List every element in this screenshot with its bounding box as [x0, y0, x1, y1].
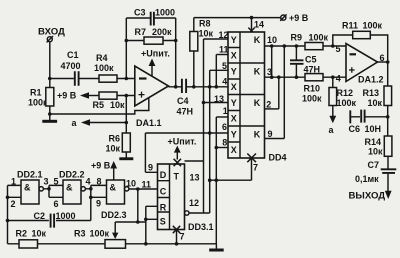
svg-text:10: 10	[126, 179, 136, 189]
node: C2 left junction	[6, 219, 10, 223]
op-amp DA1.2	[336, 44, 388, 85]
wire: vertical pin11 to signal node	[215, 55, 217, 87]
wire: DD2.2 out to DD2.3 in	[85, 185, 106, 220]
node: DD3.1 pin7 bottom	[175, 242, 179, 246]
svg-text:8: 8	[222, 138, 227, 148]
gate DD2.2	[54, 170, 91, 210]
svg-text:100к: 100к	[302, 94, 322, 104]
pin 14 stub with x mark	[248, 18, 264, 34]
wire: wiper riser	[115, 189, 146, 222]
node: gate1-2 junction	[47, 187, 51, 191]
svg-text:C: C	[160, 187, 167, 197]
pin 7 DD3.1 with x mark	[173, 226, 185, 244]
+9V arrow DD2.3	[91, 161, 117, 181]
node: R7 right	[174, 39, 178, 43]
node: pin5	[331, 44, 335, 48]
svg-text:200к: 200к	[152, 27, 172, 37]
resistor R3	[74, 229, 126, 249]
svg-text:T: T	[174, 172, 180, 182]
svg-text:R10: R10	[304, 84, 321, 94]
capacitor C5	[290, 46, 320, 77]
node: wiper riser top	[136, 187, 140, 191]
svg-text:R13: R13	[363, 88, 380, 98]
svg-text:4700: 4700	[61, 61, 81, 71]
resistor R8	[190, 18, 214, 87]
svg-text:9: 9	[148, 163, 153, 173]
svg-text:100к: 100к	[337, 98, 357, 108]
resistor R4	[94, 53, 117, 82]
resistor R6	[106, 133, 131, 154]
svg-text:ВХОД: ВХОД	[38, 27, 65, 38]
svg-text:D: D	[160, 170, 167, 180]
ground under R1	[42, 114, 57, 123]
node: K10 branch	[283, 44, 287, 48]
svg-text:DA1.1: DA1.1	[136, 118, 162, 128]
node: K3 branch right	[277, 75, 281, 79]
wire: X pin 1	[216, 116, 228, 118]
wire: input node	[50, 78, 99, 80]
svg-text:&: &	[110, 183, 117, 193]
resistor R10	[302, 74, 323, 104]
wire: Y pin 12	[204, 38, 229, 40]
terminal +9V	[280, 13, 309, 23]
svg-text:11: 11	[142, 180, 152, 190]
svg-text:ВЫХОД: ВЫХОД	[349, 191, 386, 202]
svg-text:+9 В: +9 В	[91, 161, 111, 171]
wire: input stem	[49, 42, 51, 79]
+Upit arrow DD3.1	[168, 137, 197, 160]
svg-text:C5: C5	[305, 55, 317, 65]
svg-text:8: 8	[97, 177, 102, 187]
svg-text:C1: C1	[67, 50, 79, 60]
svg-text:+9 В: +9 В	[57, 91, 77, 101]
wire: DD2.1 inputs	[8, 185, 22, 197]
svg-text:10к: 10к	[106, 144, 121, 154]
+9V arrow to R5	[57, 91, 99, 101]
svg-text:K: K	[254, 67, 261, 77]
ground main	[209, 244, 224, 252]
wire: feedback right riser	[175, 18, 177, 87]
node: S junction	[144, 218, 148, 222]
wire: K10-K3 vertical	[271, 46, 273, 77]
IC DD3.1 body	[158, 164, 214, 232]
svg-text:11: 11	[219, 45, 229, 55]
resistor R5	[93, 92, 126, 110]
svg-text:R11: R11	[342, 21, 358, 31]
svg-text:1000: 1000	[155, 8, 175, 18]
node: gate2-3 junction top	[89, 187, 93, 191]
svg-text:10к: 10к	[368, 98, 383, 108]
svg-text:10к: 10к	[110, 100, 125, 110]
wire: DA1.1 output node	[169, 86, 229, 88]
wire: R9 to pin5 node	[323, 45, 346, 47]
svg-text:6: 6	[54, 199, 59, 209]
svg-text:100к: 100к	[28, 98, 48, 108]
wire: plus input riser down to a-line and R6	[125, 96, 127, 134]
node: C5 top	[295, 44, 299, 48]
wire: vertical pin12 to pin13 to Q13	[203, 39, 205, 213]
svg-text:R: R	[160, 203, 167, 213]
svg-text:C6: C6	[349, 124, 361, 134]
node: Y6 junction	[208, 131, 212, 135]
capacitor C4	[177, 79, 194, 117]
wire: X pin 11	[216, 54, 228, 56]
node: pin2 junction	[6, 196, 10, 200]
node: Y13 junction	[202, 101, 206, 105]
wire: DD2.3 out to DD3.1 C input	[129, 188, 158, 190]
svg-text:K: K	[254, 98, 261, 108]
resistor R14	[365, 136, 392, 169]
potentiometer R3 wiper arrow	[112, 222, 118, 239]
gate DD2.1	[11, 170, 49, 210]
svg-text:DD3.1: DD3.1	[188, 222, 214, 232]
gate DD2.3	[96, 177, 136, 221]
node: input/R1 junction	[48, 77, 52, 81]
svg-text:12: 12	[189, 198, 199, 208]
svg-text:K: K	[254, 35, 261, 45]
svg-text:7: 7	[253, 163, 258, 173]
node: non-inverting input junction	[125, 94, 129, 98]
resistor R1	[28, 79, 54, 115]
svg-text:&: &	[24, 183, 31, 193]
svg-text:&: &	[66, 183, 73, 193]
node: K3 branch	[270, 75, 274, 79]
node: pin7 crossing	[215, 178, 219, 182]
svg-text:2: 2	[11, 199, 16, 209]
IC DD4 body	[228, 32, 287, 163]
svg-text:R1: R1	[30, 88, 42, 98]
resistor R12	[329, 77, 357, 116]
svg-text:C2: C2	[34, 211, 46, 221]
node a junction	[125, 121, 129, 125]
svg-text:X: X	[231, 114, 237, 124]
svg-text:S: S	[160, 217, 166, 227]
wire: feedback left riser	[125, 18, 127, 79]
svg-text:Y: Y	[231, 98, 237, 108]
wire: Y pin 6 to DD3.1 D riser	[145, 132, 228, 134]
svg-text:4: 4	[222, 77, 227, 87]
svg-text:10H: 10H	[365, 124, 382, 134]
svg-text:0,1мк: 0,1мк	[355, 174, 379, 184]
wire: Y pin 13	[204, 102, 229, 104]
svg-text:6: 6	[222, 122, 227, 132]
svg-text:5: 5	[54, 177, 59, 187]
svg-text:3: 3	[44, 177, 49, 187]
svg-text:DD2.3: DD2.3	[101, 210, 127, 220]
svg-text:10к: 10к	[199, 29, 214, 39]
node: wiper junction	[136, 220, 140, 224]
svg-text:R8: R8	[199, 19, 211, 29]
wire: K10-K9 vertical	[283, 46, 285, 139]
+Upit arrow DA1.1	[141, 49, 170, 77]
wire: K3 to R10	[265, 76, 306, 78]
svg-text:C7: C7	[368, 160, 380, 170]
node a arrow left	[72, 118, 127, 128]
wire: K3-K2 vertical	[278, 77, 280, 109]
svg-text:Y: Y	[231, 35, 237, 45]
node: pin4	[331, 75, 335, 79]
node: output pin6	[386, 60, 390, 64]
wire: D input from Y6 wire	[145, 133, 157, 172]
svg-text:X: X	[231, 82, 237, 92]
wire: +9V rail	[194, 17, 281, 19]
node: C6 right junction	[386, 115, 390, 119]
node: X11-X4 junction	[215, 85, 219, 89]
capacitor C2	[8, 211, 91, 228]
svg-text:4: 4	[336, 74, 341, 84]
node: pin14 junction	[250, 16, 254, 20]
svg-text:100к: 100к	[363, 21, 383, 31]
svg-text:4: 4	[86, 177, 91, 187]
svg-text:R7: R7	[135, 27, 147, 37]
svg-text:47H: 47H	[177, 107, 194, 117]
node: RS riser bottom	[144, 242, 148, 246]
svg-text:Y: Y	[231, 130, 237, 140]
svg-text:100к: 100к	[90, 229, 110, 239]
node: pin7 wire junction	[208, 178, 212, 182]
svg-text:13: 13	[190, 173, 200, 183]
svg-text:1: 1	[223, 106, 228, 116]
node: C5 bottom	[295, 75, 299, 79]
svg-text:R6: R6	[109, 134, 121, 144]
wire: DD2.1 out to DD2.2 in	[43, 185, 63, 197]
wire: R5 to non-inverting input	[117, 95, 135, 97]
output arrow VYHOD	[349, 191, 392, 202]
svg-text:R2: R2	[16, 229, 28, 239]
svg-text:5: 5	[222, 61, 227, 71]
wire: vertical pin5 down to pin12 of DD3.1	[209, 70, 211, 213]
svg-text:Y: Y	[231, 67, 237, 77]
svg-text:R12: R12	[337, 88, 354, 98]
svg-text:DD2.1: DD2.1	[17, 170, 43, 180]
wire: K10 to R9	[265, 45, 306, 47]
svg-text:C3: C3	[134, 8, 146, 18]
svg-text:10к: 10к	[32, 229, 47, 239]
node: signal junction	[208, 85, 212, 89]
resistor R7	[126, 27, 175, 44]
capacitor C7	[355, 160, 396, 191]
wire: left riser input node	[7, 185, 9, 243]
svg-text:6: 6	[380, 53, 385, 63]
node: K10 branch left	[270, 44, 274, 48]
wire: Y pin 5	[210, 69, 228, 71]
wire: ground vertical X1-X8	[215, 117, 217, 244]
svg-text:DA1.2: DA1.2	[358, 75, 384, 85]
resistor R9	[291, 33, 329, 50]
node: R8 bottom	[192, 85, 196, 89]
resistor R11 feedback	[333, 21, 388, 63]
ground under R6	[119, 152, 133, 160]
svg-text:100к: 100к	[309, 33, 329, 43]
arrow a down from R12	[329, 116, 337, 135]
wire: K9 pin	[265, 138, 285, 140]
pin 7 DD4 with x mark	[210, 154, 258, 181]
inverted output pin 12	[185, 198, 210, 215]
wire: X pin 8	[216, 147, 228, 149]
wire: R4 to inverting input	[117, 78, 135, 80]
wire: bottom resistor chain	[8, 243, 217, 245]
svg-text:2: 2	[266, 100, 271, 110]
wire: R10 to pin4 node	[323, 76, 346, 78]
svg-text:K: K	[254, 130, 261, 140]
wire: Q pin 13 output	[185, 160, 204, 162]
svg-text:5: 5	[336, 44, 341, 54]
capacitor C3 with feedback top wire	[126, 8, 175, 26]
svg-text:+Uпит.: +Uпит.	[168, 137, 197, 147]
svg-text:R5: R5	[93, 100, 105, 110]
wire: K2 pin	[265, 108, 279, 110]
capacitor C6	[349, 110, 388, 134]
node: R7 left	[125, 39, 129, 43]
resistor R2	[16, 229, 47, 249]
node: inverting input junction	[125, 77, 129, 81]
node: gate2-3 junction bottom	[89, 196, 93, 200]
svg-text:10: 10	[267, 35, 277, 45]
svg-text:X: X	[231, 51, 237, 61]
svg-text:14: 14	[254, 20, 264, 30]
svg-text:100к: 100к	[94, 63, 114, 73]
svg-text:R4: R4	[96, 53, 108, 63]
svg-text:DD2.2: DD2.2	[59, 170, 85, 180]
wire: R and S inputs riser	[146, 206, 158, 244]
svg-text:R14: R14	[365, 137, 382, 147]
svg-text:DD4: DD4	[269, 153, 287, 163]
node: output/feedback	[174, 85, 178, 89]
op-amp DA1.1	[135, 66, 169, 128]
resistor R13	[363, 62, 392, 136]
svg-text:R9: R9	[291, 33, 303, 43]
svg-text:9: 9	[268, 129, 273, 139]
svg-text:C4: C4	[177, 96, 189, 106]
svg-text:9: 9	[96, 199, 101, 209]
svg-text:1000: 1000	[56, 211, 76, 221]
node: R1 bottom junction	[48, 112, 52, 116]
wire: ground wire under R1 to DA1.1	[50, 98, 149, 114]
x mark power pin DD3.1	[174, 159, 181, 166]
svg-text:+9 В: +9 В	[289, 13, 309, 23]
capacitor C1	[61, 50, 81, 86]
svg-text:R3: R3	[74, 229, 86, 239]
svg-text:10к: 10к	[368, 147, 383, 157]
svg-text:X: X	[231, 145, 237, 155]
svg-text:+Uпит.: +Uпит.	[141, 49, 170, 59]
input terminal VHOD	[38, 27, 65, 43]
node: X8 junction	[215, 146, 219, 150]
